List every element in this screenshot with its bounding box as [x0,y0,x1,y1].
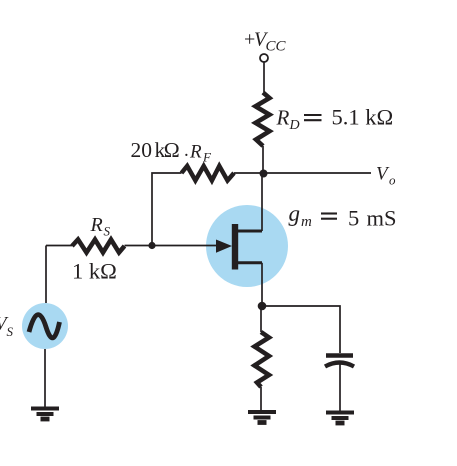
wire capacitor to ground [339,364,341,411]
wire RF left down to gate node [152,173,182,246]
transistor highlight circle [206,205,288,287]
svg-text:5mS: 5mS [348,206,397,231]
ground (Vs) [31,409,59,420]
svg-text:20kΩ: 20kΩ [131,138,180,162]
wire node C to source resistor [260,306,262,332]
wire RF right to node A [234,172,264,174]
resistor RSs (source resistor) [255,332,270,387]
wire VCC to RD [263,62,265,92]
node A (drain node) [260,170,268,178]
svg-text:.RF: .RF [184,140,212,165]
wire node C to capacitor branch [262,306,340,353]
svg-text:+VCC: +VCC [244,29,287,55]
svg-text:1 kΩ: 1 kΩ [72,258,117,283]
wire source down to node C [261,263,263,306]
source Vs sine symbol [29,315,60,338]
svg-text:VS: VS [0,314,14,340]
node C (source junction) [258,302,267,311]
wire source resistor to ground [260,387,262,410]
svg-text:5.1 kΩ: 5.1 kΩ [332,105,394,130]
svg-text:RD: RD [276,106,300,134]
transistor Q1 gate arrow [216,240,232,253]
wire Vs to RS [46,245,72,247]
label = (gm) [321,214,337,219]
resistor RS [72,240,125,253]
wire RS to gate arrow [125,245,219,247]
label = (RD) [304,115,322,120]
node +VCC terminal [260,54,268,62]
source Vs circle [22,303,68,349]
wire drain up to node A [261,173,263,231]
capacitor CS bottom plate [325,363,354,367]
resistor RD [256,93,270,147]
transistor Q1 source lead [238,261,262,264]
ground (source resistor) [248,412,276,423]
transistor Q1 drain lead [238,230,262,233]
svg-text:gm: gm [289,201,313,230]
node B (gate junction) [148,242,155,249]
svg-text:RS: RS [90,214,111,239]
wire node A to Vo [264,172,371,174]
transistor Q1 gate bar [232,224,238,270]
capacitor CS top plate [326,353,353,357]
wire Vs to ground [44,349,46,408]
resistor RF [182,166,235,181]
wire RD to node A [262,146,264,173]
wire gate node down to Vs [45,246,47,304]
ground (capacitor) [326,413,354,424]
svg-text:Vo: Vo [376,164,396,188]
